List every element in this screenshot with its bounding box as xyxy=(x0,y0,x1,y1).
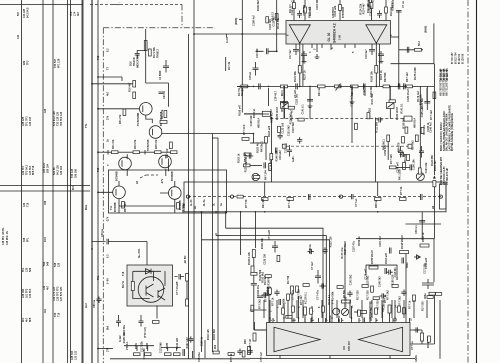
svg-text:5k6: 5k6 xyxy=(107,325,110,330)
svg-text:R188 4k7: R188 4k7 xyxy=(383,298,386,309)
wire xyxy=(364,88,366,96)
network shelf wire xyxy=(406,223,442,225)
wire mid h114 xyxy=(244,113,269,115)
junction node xyxy=(398,86,400,88)
svg-text:C19 4u7: C19 4u7 xyxy=(365,49,368,59)
svg-text:C169 1k: C169 1k xyxy=(201,336,204,346)
capacitor C23 xyxy=(259,83,261,89)
main bus wire xyxy=(237,85,434,87)
ground xyxy=(379,59,384,63)
svg-text:6.3: 6.3 xyxy=(107,254,110,258)
resistor R168 xyxy=(355,123,358,129)
svg-text:2T4: 2T4 xyxy=(107,347,110,352)
wire xyxy=(311,306,313,318)
resistor R43L vertical xyxy=(265,137,268,144)
table column line 5 xyxy=(70,0,72,363)
svg-text:C101 8k2: C101 8k2 xyxy=(287,125,290,136)
svg-text:C124 10k: C124 10k xyxy=(425,162,428,173)
svg-text:1u61: 1u61 xyxy=(292,156,295,162)
pot circle left low xyxy=(252,173,259,180)
wire xyxy=(276,300,278,318)
svg-text:R177 4k7: R177 4k7 xyxy=(291,109,294,120)
wire op1 output xyxy=(299,42,301,86)
wire R81 down xyxy=(186,281,188,299)
svg-text:C?? 1u: C?? 1u xyxy=(411,341,414,350)
amp triangle right xyxy=(359,327,403,351)
resistor R173 xyxy=(288,106,294,109)
left net resistor R135 xyxy=(291,286,294,294)
resistor row R41 xyxy=(112,151,119,154)
resistor R81 side xyxy=(186,274,189,282)
svg-text:C138 120: C138 120 xyxy=(250,115,253,126)
resistor R xyxy=(398,306,401,312)
preset pot P3 box xyxy=(387,103,395,109)
capacitor C30 xyxy=(92,239,147,245)
svg-text:R141 0.1: R141 0.1 xyxy=(400,103,403,114)
wire stub 218 xyxy=(212,137,218,139)
svg-text:R187 47u: R187 47u xyxy=(344,243,347,254)
svg-text:T16: T16 xyxy=(122,271,125,276)
svg-text:R105 103.8: R105 103.8 xyxy=(276,106,279,120)
resistor R100 xyxy=(270,154,273,160)
svg-text:T16: T16 xyxy=(57,312,60,317)
wire above W xyxy=(250,164,262,166)
svg-text:R149 1k5: R149 1k5 xyxy=(176,337,179,348)
wire xyxy=(369,302,371,318)
resistor R186 xyxy=(405,127,408,133)
components above W left xyxy=(244,164,251,167)
junction node xyxy=(331,317,333,319)
svg-text:TTL: TTL xyxy=(85,123,88,128)
wire base T7 xyxy=(98,108,140,110)
wire xyxy=(351,306,353,318)
capacitor R107 xyxy=(322,247,327,254)
below T16 row cap2 xyxy=(139,315,144,327)
wire above W right xyxy=(396,166,410,168)
junction node C16 xyxy=(276,50,278,52)
svg-text:1L 04: 1L 04 xyxy=(190,199,193,206)
resistor R14 xyxy=(281,85,288,88)
svg-text:TN5013: TN5013 xyxy=(157,48,160,58)
resistor R xyxy=(269,288,272,294)
wire xyxy=(310,318,312,323)
IC4 left wire xyxy=(255,322,267,330)
wire xyxy=(272,318,274,323)
wire pin up 2 xyxy=(304,0,306,21)
resistor R xyxy=(282,308,285,314)
resistor in W extra xyxy=(237,195,243,198)
junction node xyxy=(97,76,99,78)
tick mark xyxy=(226,34,228,37)
svg-text:R7? 1k5: R7? 1k5 xyxy=(390,154,393,164)
link square left xyxy=(282,144,286,148)
svg-text:T15: T15 xyxy=(97,55,100,60)
wire feed left xyxy=(194,33,286,35)
capacitor C46L xyxy=(275,148,277,154)
wire xyxy=(358,318,360,323)
left net resistor R131 xyxy=(251,266,254,274)
svg-text:8.2: 8.2 xyxy=(107,48,110,52)
switch contact circle left xyxy=(186,195,189,198)
svg-text:C16 490: C16 490 xyxy=(256,48,259,58)
svg-text:R188 0.1: R188 0.1 xyxy=(391,0,394,11)
wire right vert 420 xyxy=(419,86,421,172)
svg-text:R45 47k: R45 47k xyxy=(155,139,158,149)
capacitor C47L xyxy=(287,145,292,157)
svg-text:186 186: 186 186 xyxy=(74,168,77,178)
svg-text:LTP 49.7: LTP 49.7 xyxy=(275,90,278,101)
svg-text:C102 120: C102 120 xyxy=(363,84,366,95)
resistor R119 right xyxy=(433,92,436,99)
net wire 4 xyxy=(304,315,306,323)
capacitor C25 on bus xyxy=(364,83,366,89)
resistor R xyxy=(375,308,378,314)
svg-text:T18: T18 xyxy=(97,167,100,172)
left net resistor R137 xyxy=(304,307,307,315)
svg-text:94.5: 94.5 xyxy=(44,237,47,242)
T16 second stage xyxy=(158,288,165,300)
svg-text:R90: R90 xyxy=(244,339,247,344)
wire xyxy=(287,300,289,318)
long vertical 241 xyxy=(240,212,242,255)
transistor T10 xyxy=(159,155,172,168)
svg-text:R?? 1R: R?? 1R xyxy=(249,339,252,348)
cap in W extra xyxy=(352,194,354,199)
svg-text:R114 56k: R114 56k xyxy=(277,17,280,28)
svg-text:C107 47u: C107 47u xyxy=(353,241,356,252)
IC4 pin stub 9 xyxy=(331,318,333,323)
svg-text:R175 u22: R175 u22 xyxy=(308,6,311,18)
IC4 pin stub 6 xyxy=(304,318,306,323)
ground xyxy=(282,100,287,104)
svg-text:875/TN08: 875/TN08 xyxy=(342,6,345,18)
svg-text:R123 120: R123 120 xyxy=(330,236,333,247)
svg-text:VSTD3-276 HP: VSTD3-276 HP xyxy=(446,167,449,185)
svg-text:FF1: FF1 xyxy=(26,237,29,242)
table column line 1 xyxy=(21,0,23,363)
svg-text:S.1k2: S.1k2 xyxy=(119,335,122,342)
junction T8 xyxy=(253,133,255,135)
capacitor R118 xyxy=(188,336,193,343)
svg-text:R179 4u7: R179 4u7 xyxy=(417,90,420,102)
resistor R172 xyxy=(251,272,257,275)
svg-text:C? u1: C? u1 xyxy=(402,0,405,8)
svg-text:64.6u: 64.6u xyxy=(329,315,332,322)
long vertical 188 low xyxy=(188,212,190,359)
capacitor C171 xyxy=(183,349,185,356)
resistor R12 xyxy=(241,85,248,88)
inner block left edge xyxy=(271,118,273,183)
resistor R183 xyxy=(145,353,152,356)
wire xyxy=(403,300,405,318)
svg-text:R1? 4k: R1? 4k xyxy=(228,61,231,70)
svg-text:B 122 754: B 122 754 xyxy=(446,68,449,80)
junction node xyxy=(97,348,99,350)
IC4 pin stub 7 xyxy=(311,318,313,323)
net wire 3 xyxy=(291,294,293,323)
svg-text:R10? 1k: R10? 1k xyxy=(380,70,383,80)
junction node xyxy=(405,86,407,88)
resistor R181 xyxy=(134,353,141,356)
svg-text:R12 51.6: R12 51.6 xyxy=(241,85,244,96)
resistor R155 xyxy=(369,266,378,269)
svg-text:S40802A 4.2: S40802A 4.2 xyxy=(333,23,337,43)
svg-text:56.2: 56.2 xyxy=(418,41,421,46)
svg-text:R1? 330: R1? 330 xyxy=(298,289,301,299)
long vertical 194 low xyxy=(193,212,195,352)
wire T10 emitter xyxy=(165,169,167,176)
capacitor C27 xyxy=(307,100,313,102)
resistor R xyxy=(392,285,398,288)
capacitor R132 xyxy=(400,152,407,157)
wire xyxy=(302,300,304,318)
svg-text:C4 5006: C4 5006 xyxy=(159,70,162,80)
svg-text:132 TF3: 132 TF3 xyxy=(29,288,32,298)
wire xyxy=(382,306,384,318)
junction node xyxy=(91,83,93,85)
svg-text:4k7: 4k7 xyxy=(46,285,49,290)
junction node xyxy=(339,86,341,88)
svg-text:SL+TO1: SL+TO1 xyxy=(138,248,141,258)
resistor row R49 xyxy=(171,151,178,154)
preset pot P2 box xyxy=(281,103,289,109)
IC4 pin stub 8 xyxy=(318,318,320,323)
svg-text:C130 M1: C130 M1 xyxy=(273,16,276,27)
bus line A xyxy=(81,0,83,363)
svg-text:C126 150: C126 150 xyxy=(263,253,266,264)
svg-text:R166 u47: R166 u47 xyxy=(239,104,242,116)
IC4 pin stub 11 xyxy=(351,318,353,323)
feed arrow right xyxy=(433,175,436,178)
svg-text:(9606): (9606) xyxy=(425,26,428,33)
svg-text:-27V: -27V xyxy=(107,216,110,222)
preset P3 arrow xyxy=(388,103,394,108)
svg-text:C164 u22: C164 u22 xyxy=(334,5,337,17)
T7 base bar xyxy=(142,106,144,113)
feedback wire 3 xyxy=(202,240,330,323)
power amp IC4 body xyxy=(267,323,411,356)
wire drop 218 xyxy=(217,138,219,212)
IC4 bottom stub 3 xyxy=(389,356,391,359)
svg-text:R173 47u: R173 47u xyxy=(341,247,344,258)
capacitor C xyxy=(262,292,269,297)
ground xyxy=(308,103,313,107)
svg-text:R156 1k: R156 1k xyxy=(358,236,361,246)
net wire 8 xyxy=(389,313,391,323)
feedback wire 1 xyxy=(226,228,323,322)
mid net pot xyxy=(341,308,348,315)
svg-text:R106 103.8: R106 103.8 xyxy=(396,106,399,120)
op-amp U1b triangle xyxy=(366,25,387,43)
T9 base bar xyxy=(121,160,123,167)
wire op1 output b xyxy=(302,44,304,86)
ground xyxy=(350,99,355,103)
wire pin up 4 xyxy=(371,0,373,21)
svg-text:C186 u47: C186 u47 xyxy=(397,161,400,173)
wire right branch xyxy=(399,49,423,51)
svg-text:3L: 3L xyxy=(213,203,216,206)
wire D16 stem xyxy=(145,29,147,83)
resistor R117 xyxy=(415,48,422,51)
resistor R114 xyxy=(286,315,292,318)
junction node xyxy=(240,211,242,213)
left net cap C133 xyxy=(279,299,281,305)
svg-text:R111 56k: R111 56k xyxy=(376,121,379,132)
table row rule xyxy=(0,185,90,187)
junction node xyxy=(264,211,266,213)
dashed signal line 1 xyxy=(270,118,404,120)
net wire 7 xyxy=(369,312,371,323)
long vertical 212 xyxy=(211,212,213,352)
below T16 row cap1 xyxy=(116,315,121,327)
wire xyxy=(377,190,379,196)
svg-text:T9 BC548B: T9 BC548B xyxy=(137,113,140,126)
resistor R64 in W xyxy=(400,198,407,201)
resistor R153 xyxy=(420,244,429,247)
svg-text:C120 0.1: C120 0.1 xyxy=(285,142,288,153)
svg-text:R160 0.12k: R160 0.12k xyxy=(248,251,251,265)
wire xyxy=(253,323,255,331)
capacitor C162 xyxy=(251,284,257,291)
components above W right xyxy=(390,166,397,169)
capacitor C4 left top xyxy=(163,60,169,73)
amp triangle left xyxy=(274,327,320,351)
table column line 6 xyxy=(82,0,84,363)
capacitor C xyxy=(380,293,387,298)
wire T11 leads xyxy=(98,181,119,206)
resistor R18 lower xyxy=(281,102,288,105)
inner block right edge xyxy=(375,118,377,183)
wire stub 226 xyxy=(225,57,227,71)
wire T9 stub xyxy=(127,154,166,176)
mid net resistor R141 xyxy=(358,311,367,314)
ground xyxy=(302,59,307,63)
resistor R xyxy=(428,336,431,342)
switch contact circle right xyxy=(439,195,442,198)
svg-text:R124 680: R124 680 xyxy=(431,155,434,166)
wire top link row2 xyxy=(161,348,181,352)
T16 base bar xyxy=(146,284,154,297)
svg-text:BC548B: BC548B xyxy=(114,202,117,212)
svg-text:BC560B: BC560B xyxy=(179,200,182,210)
T8 base bar xyxy=(152,129,154,136)
svg-text:C?? 4u7: C?? 4u7 xyxy=(260,352,263,362)
svg-text:B1711: B1711 xyxy=(122,280,125,288)
wire xyxy=(283,88,285,99)
svg-text:R105 10k: R105 10k xyxy=(123,332,126,343)
wire xyxy=(409,318,411,323)
wire xyxy=(389,88,391,99)
wire row tick1 xyxy=(107,150,109,155)
svg-text:C107 5k6: C107 5k6 xyxy=(292,122,295,133)
resistor R xyxy=(337,286,343,289)
svg-text:C115 22k: C115 22k xyxy=(316,0,319,10)
svg-text:R14 56k: R14 56k xyxy=(283,298,286,308)
svg-text:R109 56k: R109 56k xyxy=(259,269,262,280)
bus line C xyxy=(97,0,99,363)
wire drop 390 pot xyxy=(389,86,391,102)
capacitor C36 xyxy=(419,221,425,223)
long vertical 218 xyxy=(217,212,219,352)
IC4 bottom stub 1 xyxy=(279,356,281,359)
resistor R16 xyxy=(133,81,136,88)
cap C152 xyxy=(272,241,278,253)
wire drop 205 xyxy=(204,340,206,358)
wire row y152 mid xyxy=(118,151,133,153)
svg-text:C?? 47u: C?? 47u xyxy=(317,290,320,300)
resistor R129 xyxy=(436,293,442,296)
box L around T11 T12 xyxy=(109,170,227,213)
svg-text:AL2: AL2 xyxy=(85,303,88,308)
connector pin box xyxy=(262,111,270,116)
wire right pin c xyxy=(398,10,400,86)
wire pin up 5 xyxy=(385,0,387,21)
resistor R62 in W xyxy=(287,198,294,201)
resistor R22 on bus xyxy=(383,85,390,88)
resistor R172 xyxy=(148,49,151,56)
long vertical 226 xyxy=(225,212,227,228)
svg-text:R138 0.1: R138 0.1 xyxy=(270,112,273,123)
svg-text:C?? 47u: C?? 47u xyxy=(292,290,295,300)
junction node xyxy=(351,86,353,88)
capacitor C141 xyxy=(402,258,404,264)
capacitor R120 xyxy=(297,137,302,144)
svg-text:1-00: 1-00 xyxy=(339,34,342,40)
dashed box left edge xyxy=(113,3,121,5)
svg-text:C141 0.1: C141 0.1 xyxy=(301,104,304,115)
svg-text:C186 10k: C186 10k xyxy=(412,159,415,170)
table header rule xyxy=(0,4,83,6)
switch contact mid1 xyxy=(230,195,233,198)
resistor R31 xyxy=(123,109,126,116)
svg-text:547: 547 xyxy=(17,11,20,16)
resistor R186 xyxy=(254,176,260,179)
resistor R148 xyxy=(400,251,409,254)
svg-text:C152 1k5: C152 1k5 xyxy=(295,93,298,104)
svg-text:R180 150: R180 150 xyxy=(392,274,395,285)
svg-text:C127 5k6: C127 5k6 xyxy=(159,342,162,353)
wire xyxy=(351,88,353,97)
resistor R63 in W xyxy=(375,198,382,201)
svg-text:8F5: 8F5 xyxy=(29,317,32,322)
table column line 3 xyxy=(52,0,54,363)
wire right vert 427 xyxy=(426,86,428,110)
IC4 pin stub 1 xyxy=(269,318,271,323)
junction node xyxy=(215,211,217,213)
right border solid xyxy=(476,0,478,363)
wire row y152 mid2 xyxy=(140,151,155,153)
trimmer P1 on bus xyxy=(335,85,342,88)
wire xyxy=(426,300,428,318)
svg-text:R1? 3k3: R1? 3k3 xyxy=(412,140,415,150)
svg-text:134: 134 xyxy=(17,34,20,39)
switch contact mid2 xyxy=(339,195,342,198)
svg-text:C17 4u7: C17 4u7 xyxy=(289,49,292,59)
svg-text:R?? 1k2: R?? 1k2 xyxy=(430,110,433,120)
svg-text:MAL: MAL xyxy=(85,204,88,210)
junction node xyxy=(268,86,270,88)
dashed link A3 A4 xyxy=(140,175,158,178)
mid net pot arrow xyxy=(343,310,348,315)
resistor R44L vertical xyxy=(269,164,272,171)
wire xyxy=(309,88,311,101)
wire xyxy=(263,300,265,318)
svg-text:R171 56k: R171 56k xyxy=(371,93,374,104)
IC4 pin stub 12 xyxy=(369,318,371,323)
svg-text:5600: 5600 xyxy=(406,262,409,268)
junction node xyxy=(255,211,257,213)
svg-text:C176 5k6: C176 5k6 xyxy=(270,159,273,170)
